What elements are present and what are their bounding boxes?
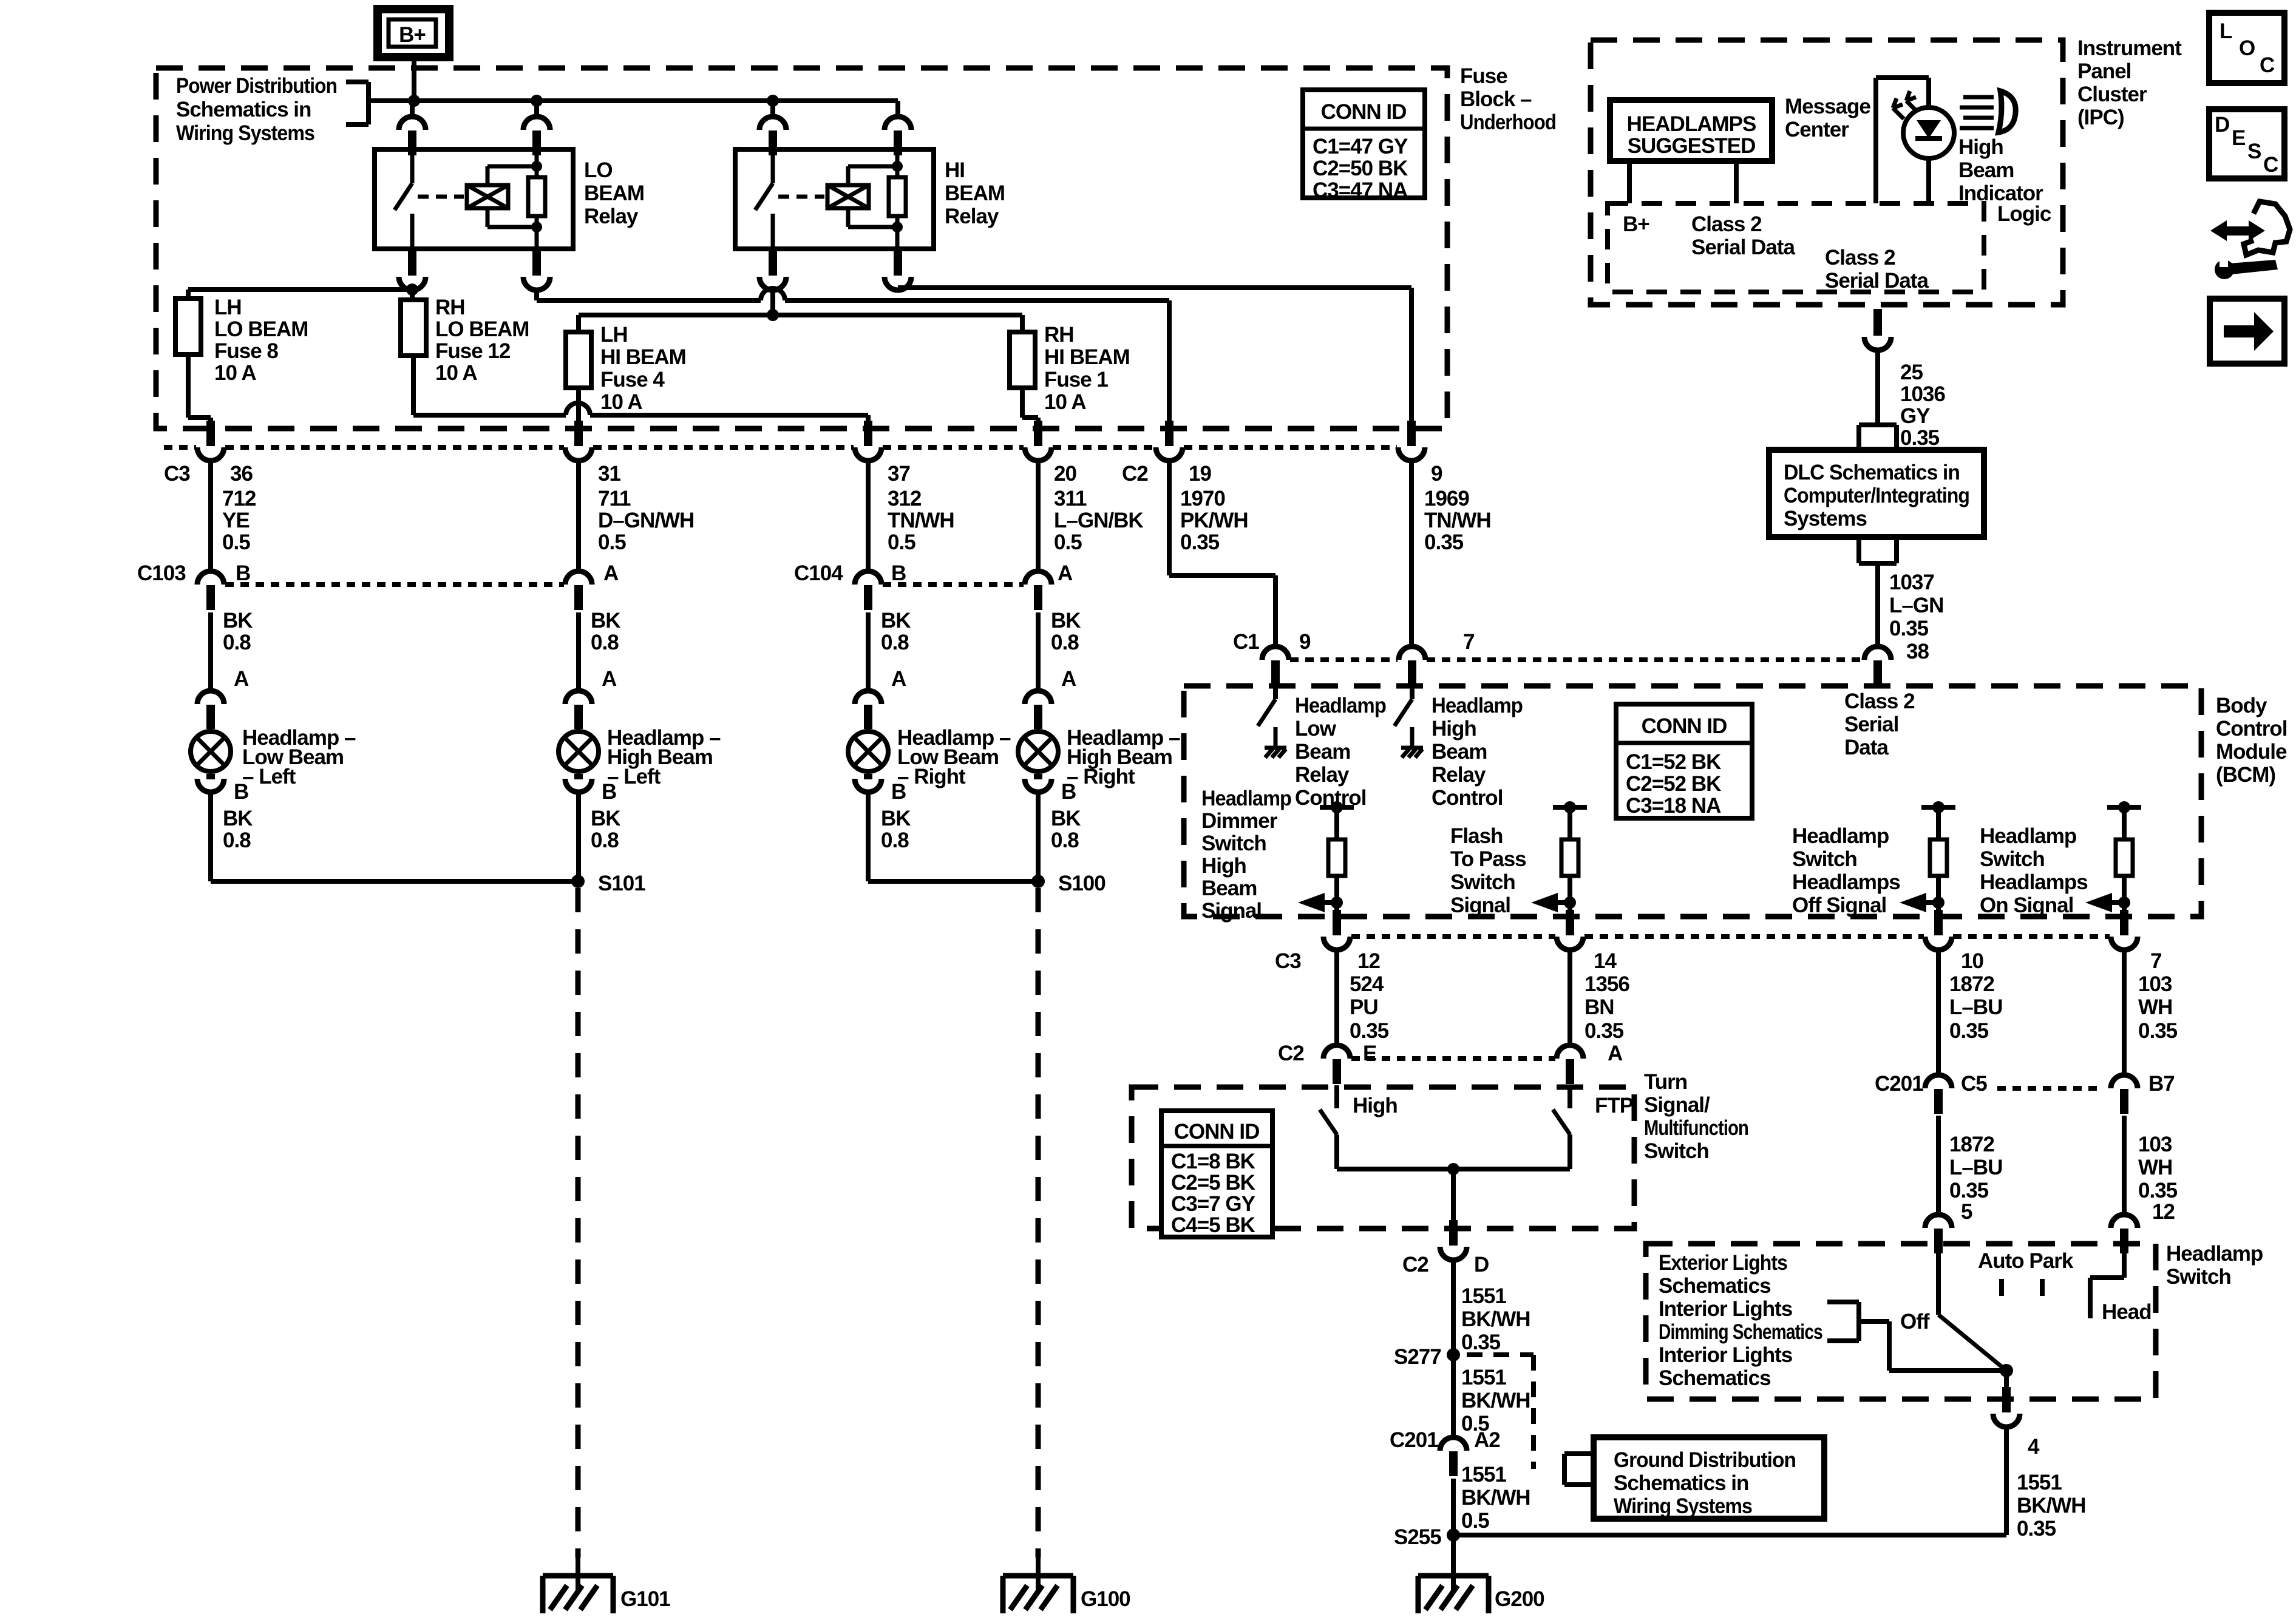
wire LO relay coil out to pin 19 bbox=[537, 288, 1169, 427]
svg-text:CONN ID: CONN ID bbox=[1321, 100, 1407, 124]
connector pin 4 bbox=[1993, 1387, 2020, 1427]
box HEADLAMPS SUGGESTED bbox=[1610, 100, 1772, 161]
pin letter B row bbox=[234, 780, 1076, 804]
wire fuse4 out bbox=[576, 388, 581, 427]
svg-text:C3=47 NA: C3=47 NA bbox=[1313, 178, 1408, 202]
svg-text:CONN ID: CONN ID bbox=[1642, 714, 1727, 738]
svg-text:Headlamps: Headlamps bbox=[1980, 870, 2088, 894]
wire label 524 PU bbox=[1350, 972, 1389, 1043]
svg-text:D–GN/WH: D–GN/WH bbox=[598, 509, 694, 532]
svg-text:Auto Park: Auto Park bbox=[1978, 1249, 2074, 1273]
bracket interior lights dimming bbox=[1827, 1302, 1859, 1341]
label Class 2 Serial Data BCM bbox=[1844, 690, 1915, 759]
bracket to power distribution bbox=[346, 82, 369, 124]
connector pin C1-9 bbox=[1262, 646, 1289, 685]
wire label 1872 L-BU upper bbox=[1949, 972, 2002, 1043]
svg-text:BK: BK bbox=[881, 807, 911, 830]
svg-text:A: A bbox=[602, 667, 617, 691]
head contact bbox=[2090, 1253, 2124, 1318]
icon arrow wrench bbox=[2210, 202, 2290, 279]
node S277 bbox=[1447, 1348, 1460, 1361]
ground G100 bbox=[1003, 1558, 1130, 1613]
svg-text:BK/WH: BK/WH bbox=[1461, 1307, 1530, 1331]
Power Distribution note bbox=[176, 74, 337, 145]
svg-text:Schematics in: Schematics in bbox=[1614, 1471, 1748, 1495]
svg-text:10 A: 10 A bbox=[214, 361, 256, 385]
svg-text:C2: C2 bbox=[1402, 1253, 1428, 1276]
turn signal multifunction switch dashed box bbox=[1132, 1087, 1634, 1229]
wire label 1551 BK/WH 0.35 b bbox=[2017, 1471, 2086, 1541]
svg-text:Signal: Signal bbox=[1201, 899, 1262, 923]
svg-text:0.35: 0.35 bbox=[1424, 531, 1464, 554]
resistor headlamps off R3 bbox=[1900, 801, 1955, 912]
svg-text:– Right: – Right bbox=[1067, 765, 1135, 788]
connector pins headlamp switch 5 12 bbox=[1925, 1215, 2138, 1253]
wires BCM pins to C2 row bbox=[1337, 950, 1570, 1046]
svg-text:C1=8 BK: C1=8 BK bbox=[1171, 1150, 1255, 1173]
svg-text:TN/WH: TN/WH bbox=[888, 509, 954, 532]
svg-text:E: E bbox=[1363, 1042, 1376, 1065]
svg-text:Fuse 8: Fuse 8 bbox=[214, 339, 278, 363]
label Headlamp Switch bbox=[2166, 1242, 2263, 1289]
wire 1037 L-GN bbox=[1875, 563, 1880, 647]
label Headlamp Switch Headlamps Off Signal bbox=[1792, 824, 1900, 917]
svg-text:Switch: Switch bbox=[1792, 847, 1857, 871]
dashed pointer S277 to ground distribution bbox=[1467, 1355, 1594, 1485]
svg-text:0.8: 0.8 bbox=[881, 829, 909, 852]
label Flash To Pass Switch Signal bbox=[1450, 824, 1526, 917]
svg-text:Headlamp: Headlamp bbox=[1295, 694, 1386, 717]
svg-text:BK/WH: BK/WH bbox=[2017, 1494, 2086, 1517]
svg-text:Wiring Systems: Wiring Systems bbox=[176, 121, 314, 145]
label HI BEAM Relay bbox=[945, 158, 1005, 228]
svg-text:1356: 1356 bbox=[1584, 972, 1629, 996]
svg-text:C3: C3 bbox=[164, 462, 190, 486]
svg-text:A: A bbox=[1061, 667, 1076, 691]
BCM dashed box bbox=[1184, 686, 2201, 917]
svg-text:0.35: 0.35 bbox=[2138, 1179, 2178, 1202]
svg-text:Underhood: Underhood bbox=[1460, 110, 1556, 134]
svg-text:0.5: 0.5 bbox=[222, 531, 250, 554]
svg-text:0.35: 0.35 bbox=[1949, 1179, 1989, 1202]
svg-text:1969: 1969 bbox=[1424, 487, 1469, 510]
svg-text:9: 9 bbox=[1431, 462, 1442, 486]
node headlamp switch common bbox=[2000, 1364, 2013, 1377]
label Body Control Module bbox=[2216, 694, 2287, 787]
svg-text:Systems: Systems bbox=[1784, 507, 1867, 531]
svg-text:Beam: Beam bbox=[1295, 740, 1350, 764]
svg-text:20: 20 bbox=[1054, 462, 1076, 486]
svg-text:Headlamp: Headlamp bbox=[1980, 824, 2076, 848]
connector pins BCM bottom bbox=[1323, 910, 2138, 950]
svg-text:Class 2: Class 2 bbox=[1825, 246, 1895, 269]
svg-text:LH: LH bbox=[214, 296, 242, 319]
wires to headlamp switch bbox=[1938, 1116, 2124, 1216]
svg-text:Data: Data bbox=[1844, 736, 1889, 759]
svg-text:Cluster: Cluster bbox=[2077, 83, 2147, 106]
wire lamp grounds right pair bbox=[868, 792, 1038, 881]
connector pins relay LO bottom bbox=[399, 250, 550, 290]
svg-text:C1=47 GY: C1=47 GY bbox=[1313, 135, 1408, 158]
svg-text:19: 19 bbox=[1189, 462, 1211, 486]
label High Beam Indicator Logic bbox=[1958, 135, 2051, 226]
svg-text:HI BEAM: HI BEAM bbox=[600, 345, 686, 369]
resistor headlamps on R4 bbox=[2085, 801, 2141, 912]
svg-text:E: E bbox=[2232, 126, 2245, 150]
wire label 1356 BN bbox=[1584, 972, 1629, 1043]
svg-text:Headlamp: Headlamp bbox=[1201, 787, 1291, 810]
svg-text:High: High bbox=[1958, 135, 2003, 159]
CONN ID table fuse block bbox=[1303, 90, 1425, 202]
lamp E2 headlamp high beam left bbox=[559, 691, 599, 792]
labels C201 row bbox=[1875, 1072, 2175, 1096]
svg-text:12: 12 bbox=[2152, 1200, 2175, 1224]
svg-text:Beam: Beam bbox=[1201, 876, 1257, 900]
svg-text:1551: 1551 bbox=[2017, 1471, 2062, 1494]
svg-text:To Pass: To Pass bbox=[1450, 847, 1526, 871]
svg-text:0.35: 0.35 bbox=[1180, 531, 1220, 554]
svg-text:524: 524 bbox=[1350, 972, 1384, 996]
wire headlamp columns upper bbox=[211, 461, 1038, 571]
svg-text:Off Signal: Off Signal bbox=[1792, 893, 1886, 917]
svg-text:0.8: 0.8 bbox=[223, 829, 251, 852]
svg-text:LO BEAM: LO BEAM bbox=[435, 317, 529, 341]
svg-text:Exterior Lights: Exterior Lights bbox=[1659, 1251, 1787, 1275]
svg-text:LO BEAM: LO BEAM bbox=[214, 317, 308, 341]
wire fuse8 out bbox=[188, 354, 211, 427]
label Class 2 Serial Data left bbox=[1691, 212, 1795, 259]
label Class 2 Serial Data mid bbox=[1825, 246, 1929, 293]
svg-text:7: 7 bbox=[2150, 949, 2161, 973]
switch low beam relay control bbox=[1258, 685, 1286, 758]
wire fuse1 out bbox=[1022, 388, 1038, 427]
svg-text:103: 103 bbox=[2138, 1133, 2172, 1156]
svg-text:25: 25 bbox=[1900, 361, 1923, 384]
svg-text:0.35: 0.35 bbox=[1900, 426, 1940, 450]
wire common to pin 4 bbox=[2004, 1371, 2009, 1402]
connector pin C1-7 bbox=[1399, 646, 1425, 685]
svg-text:Power Distribution: Power Distribution bbox=[176, 74, 337, 98]
wire label 1551 BK/WH 0.5 b bbox=[1461, 1463, 1530, 1533]
svg-text:10 A: 10 A bbox=[1044, 390, 1086, 414]
svg-text:Relay: Relay bbox=[1432, 763, 1486, 787]
svg-text:C: C bbox=[2260, 53, 2275, 77]
svg-text:G100: G100 bbox=[1081, 1587, 1130, 1611]
lamp E1 headlamp low beam left bbox=[191, 691, 231, 792]
svg-text:S255: S255 bbox=[1394, 1525, 1441, 1549]
svg-text:1872: 1872 bbox=[1949, 972, 1994, 996]
switch high beam relay control bbox=[1394, 685, 1423, 758]
svg-text:4: 4 bbox=[2028, 1435, 2040, 1459]
svg-text:Head: Head bbox=[2102, 1300, 2152, 1324]
wire label 1551 BK/WH 0.35 bbox=[1461, 1284, 1530, 1354]
svg-text:103: 103 bbox=[2138, 972, 2172, 996]
svg-text:0.8: 0.8 bbox=[591, 631, 619, 654]
icon DESC bbox=[2209, 109, 2284, 178]
connector pin BCM class2 bbox=[1864, 646, 1891, 685]
svg-text:BK: BK bbox=[591, 807, 620, 830]
svg-text:(BCM): (BCM) bbox=[2216, 763, 2275, 787]
svg-text:Schematics: Schematics bbox=[1659, 1366, 1771, 1390]
wire stubs to relay pins bbox=[412, 101, 898, 117]
connector pin IPC 25 bbox=[1864, 309, 1891, 350]
ground G200 bbox=[1418, 1535, 1544, 1613]
wires C201 column bbox=[1938, 950, 2124, 1076]
svg-text:1551: 1551 bbox=[1461, 1366, 1506, 1389]
svg-text:Beam: Beam bbox=[1432, 740, 1487, 764]
ground G101 bbox=[543, 1558, 670, 1613]
instrument panel cluster dashed box bbox=[1591, 40, 2063, 305]
CONN ID table multifunction switch bbox=[1161, 1111, 1272, 1237]
svg-text:O: O bbox=[2239, 36, 2255, 60]
svg-text:RH: RH bbox=[435, 296, 465, 319]
IPC inner logic dashed box bbox=[1608, 203, 1984, 292]
switch headlamp blade bbox=[1938, 1253, 2006, 1371]
wire headlamps suggested legs bbox=[1629, 161, 1736, 203]
svg-text:38: 38 bbox=[1906, 640, 1929, 663]
connector pins C201 C5 B7 bbox=[1925, 1075, 2138, 1114]
label Exterior Lights Schematics bbox=[1659, 1251, 1787, 1298]
labels C1 row bbox=[1233, 630, 1474, 654]
svg-text:BK: BK bbox=[881, 609, 911, 632]
svg-text:BK: BK bbox=[223, 609, 253, 632]
wire label BK 0.8 row1 bbox=[223, 609, 1081, 654]
svg-text:C2=5 BK: C2=5 BK bbox=[1171, 1171, 1255, 1195]
svg-text:1551: 1551 bbox=[1461, 1463, 1506, 1486]
svg-text:0.35: 0.35 bbox=[1889, 617, 1929, 640]
connector row C1 dotted line bbox=[1290, 657, 1863, 662]
connector pins C3/C2 row bbox=[197, 421, 1425, 461]
svg-text:C4=5 BK: C4=5 BK bbox=[1171, 1213, 1255, 1237]
svg-text:BK/WH: BK/WH bbox=[1461, 1389, 1530, 1412]
wire label 1551 BK/WH 0.5 bbox=[1461, 1366, 1530, 1436]
svg-text:– Left: – Left bbox=[242, 765, 296, 788]
svg-text:Message: Message bbox=[1785, 95, 1870, 118]
connector row C3/C2 dotted line bbox=[164, 445, 1397, 450]
svg-text:Off: Off bbox=[1900, 1310, 1930, 1334]
LED light rays bbox=[1893, 91, 1917, 119]
labels C103 C104 bbox=[137, 561, 1073, 585]
svg-text:14: 14 bbox=[1594, 949, 1617, 973]
svg-text:Flash: Flash bbox=[1450, 824, 1503, 848]
svg-text:C201: C201 bbox=[1875, 1072, 1923, 1096]
icon arrow box bbox=[2210, 299, 2284, 364]
svg-text:B: B bbox=[602, 780, 616, 804]
svg-text:36: 36 bbox=[230, 462, 253, 486]
svg-text:Logic: Logic bbox=[1997, 202, 2051, 226]
svg-text:PU: PU bbox=[1350, 995, 1378, 1019]
node S fuse feed bbox=[406, 283, 418, 296]
fuse block underhood dashed box bbox=[156, 68, 1447, 429]
svg-text:C3=18 NA: C3=18 NA bbox=[1626, 794, 1721, 818]
svg-text:0.8: 0.8 bbox=[1051, 631, 1079, 654]
svg-text:Fuse 12: Fuse 12 bbox=[435, 339, 511, 363]
svg-text:C3: C3 bbox=[1275, 949, 1301, 973]
svg-text:0.5: 0.5 bbox=[598, 531, 626, 554]
svg-text:Signal/: Signal/ bbox=[1644, 1093, 1710, 1117]
svg-text:31: 31 bbox=[598, 462, 620, 486]
svg-text:L–GN: L–GN bbox=[1889, 594, 1943, 617]
connector C104 dotted line bbox=[883, 582, 1024, 587]
switch FTP contact bbox=[1553, 1085, 1570, 1169]
pin letter A row bbox=[234, 667, 1076, 691]
wire common down bbox=[1451, 1169, 1456, 1235]
svg-text:0.35: 0.35 bbox=[1584, 1019, 1624, 1043]
node bus-coil LO bbox=[531, 95, 543, 107]
label Turn Signal Multifunction Switch bbox=[1644, 1070, 1748, 1163]
svg-text:Fuse: Fuse bbox=[1460, 64, 1507, 88]
label Interior Lights Schematics bbox=[1659, 1343, 1793, 1390]
wire label 1037 L-GN 38 bbox=[1889, 571, 1943, 663]
svg-text:On Signal: On Signal bbox=[1980, 893, 2073, 917]
svg-text:C104: C104 bbox=[794, 561, 843, 585]
svg-text:A2: A2 bbox=[1474, 1428, 1500, 1452]
lamp E4 headlamp high beam right bbox=[1018, 691, 1058, 792]
svg-text:B+: B+ bbox=[1623, 212, 1649, 236]
fuse F12 RH LO BEAM bbox=[401, 300, 426, 356]
wire off contact bbox=[1859, 1321, 2006, 1371]
svg-text:0.35: 0.35 bbox=[1949, 1019, 1989, 1043]
label Headlamp Switch Headlamps On Signal bbox=[1980, 824, 2088, 917]
node S100 bbox=[1031, 875, 1045, 888]
svg-text:0.5: 0.5 bbox=[1461, 1509, 1489, 1533]
connector pins C104 bbox=[855, 571, 1051, 610]
wire label 312 TN/WH bbox=[888, 487, 954, 554]
wire label 25 1036 GY bbox=[1900, 361, 1945, 450]
svg-text:Relay: Relay bbox=[945, 205, 999, 228]
svg-text:B: B bbox=[891, 780, 906, 804]
svg-text:Interior Lights: Interior Lights bbox=[1659, 1297, 1793, 1321]
svg-text:Multifunction: Multifunction bbox=[1644, 1116, 1748, 1140]
fuse F1 RH HI BEAM bbox=[1010, 332, 1035, 388]
node switch common bbox=[1447, 1163, 1459, 1175]
labels pins 5 12 bbox=[1961, 1200, 2175, 1224]
svg-text:BEAM: BEAM bbox=[945, 181, 1005, 205]
svg-text:BK: BK bbox=[223, 807, 253, 830]
wire headlamp columns to lamps bbox=[211, 612, 1038, 692]
svg-text:Body: Body bbox=[2216, 694, 2267, 717]
svg-text:HEADLAMPS: HEADLAMPS bbox=[1627, 112, 1756, 136]
svg-text:10 A: 10 A bbox=[600, 390, 642, 414]
label Fuse Block Underhood bbox=[1460, 64, 1556, 134]
svg-text:Serial Data: Serial Data bbox=[1825, 269, 1929, 293]
svg-text:Ground Distribution: Ground Distribution bbox=[1614, 1448, 1796, 1472]
node HI switch junction bbox=[767, 309, 779, 321]
label Headlamp High Beam Relay Control bbox=[1432, 694, 1523, 810]
connector pins relay LO top bbox=[399, 117, 550, 155]
wire label 103 WH upper bbox=[2138, 972, 2178, 1043]
svg-text:9: 9 bbox=[1299, 630, 1311, 654]
connector pin C2-D bbox=[1440, 1220, 1467, 1260]
svg-text:FTP: FTP bbox=[1595, 1094, 1634, 1117]
svg-text:High: High bbox=[1432, 717, 1476, 741]
wire label 1872 L-BU lower bbox=[1949, 1133, 2002, 1202]
svg-text:1551: 1551 bbox=[1461, 1284, 1506, 1308]
resistor flash to pass R2 bbox=[1531, 801, 1587, 912]
svg-text:711: 711 bbox=[598, 487, 631, 510]
wire dashed drop to G101 bbox=[576, 888, 581, 1558]
svg-text:L–BU: L–BU bbox=[1949, 995, 2002, 1019]
label Headlamp Dimmer Switch High Beam Signal bbox=[1201, 787, 1291, 923]
svg-text:S: S bbox=[2247, 140, 2261, 163]
resistor dimmer signal R1 bbox=[1298, 801, 1354, 912]
svg-text:10: 10 bbox=[1961, 949, 1983, 973]
label Instrument Panel Cluster bbox=[2077, 36, 2182, 129]
svg-text:Fuse 4: Fuse 4 bbox=[600, 368, 665, 392]
wire label 1969 TN/WH bbox=[1424, 487, 1491, 554]
svg-text:G101: G101 bbox=[620, 1587, 670, 1611]
svg-text:Class 2: Class 2 bbox=[1691, 212, 1762, 236]
box DLC Schematics bbox=[1769, 450, 1984, 537]
svg-text:0.8: 0.8 bbox=[1051, 829, 1079, 852]
svg-text:C2=50 BK: C2=50 BK bbox=[1313, 157, 1408, 180]
svg-text:Turn: Turn bbox=[1644, 1070, 1687, 1094]
wire label 712 YE bbox=[222, 487, 256, 554]
svg-text:C1: C1 bbox=[1233, 630, 1259, 654]
svg-text:312: 312 bbox=[888, 487, 922, 510]
svg-text:High: High bbox=[1353, 1094, 1398, 1117]
connector pins C103 bbox=[197, 571, 592, 610]
high beam indicator LED D1 bbox=[1876, 78, 1954, 203]
labels C201 A2 bbox=[1390, 1428, 1500, 1452]
svg-text:WH: WH bbox=[2138, 995, 2172, 1019]
svg-text:0.8: 0.8 bbox=[591, 829, 619, 852]
wire B+ down bbox=[412, 57, 416, 101]
svg-text:L–BU: L–BU bbox=[1949, 1156, 2002, 1179]
labels BCM bottom pins bbox=[1275, 949, 2161, 973]
svg-text:LH: LH bbox=[600, 323, 628, 347]
svg-text:1970: 1970 bbox=[1180, 487, 1225, 510]
wire LO relay switch out to fuses bbox=[188, 290, 412, 300]
connector pins relay HI top bbox=[759, 117, 911, 155]
wire HI relay coil out to pin 9 bbox=[898, 288, 1411, 427]
connector row C201 dotted line bbox=[1997, 1086, 2102, 1091]
svg-text:Wiring Systems: Wiring Systems bbox=[1614, 1494, 1752, 1518]
svg-text:Switch: Switch bbox=[1980, 847, 2045, 871]
svg-text:D: D bbox=[2215, 113, 2229, 137]
svg-text:YE: YE bbox=[222, 509, 250, 532]
svg-text:Headlamps: Headlamps bbox=[1792, 870, 1900, 894]
headlamp switch dashed box bbox=[1646, 1244, 2156, 1399]
wire HI relay switch out to fuses bbox=[579, 290, 1022, 332]
svg-text:(IPC): (IPC) bbox=[2077, 106, 2124, 129]
svg-text:A: A bbox=[1608, 1042, 1623, 1065]
wire label 103 WH lower bbox=[2138, 1133, 2178, 1202]
svg-text:Dimming Schematics: Dimming Schematics bbox=[1659, 1320, 1822, 1344]
label Headlamp Low Beam Relay Control bbox=[1295, 694, 1386, 810]
CONN ID table BCM bbox=[1616, 704, 1752, 818]
svg-text:BK: BK bbox=[1051, 807, 1081, 830]
svg-text:HI BEAM: HI BEAM bbox=[1044, 345, 1130, 369]
svg-text:712: 712 bbox=[222, 487, 256, 510]
svg-text:0.35: 0.35 bbox=[2017, 1517, 2056, 1541]
svg-text:Switch: Switch bbox=[1644, 1139, 1709, 1163]
connector row C3 BCM bottom dotted line bbox=[1351, 934, 2110, 939]
svg-text:Panel: Panel bbox=[2077, 59, 2131, 83]
wire 1036 GY bbox=[1875, 350, 1880, 425]
svg-text:311: 311 bbox=[1054, 487, 1087, 510]
fuse F4 LH HI BEAM bbox=[566, 332, 591, 388]
wire B+ bus bbox=[369, 98, 898, 103]
connector pin C201-A2 bbox=[1440, 1437, 1467, 1476]
svg-text:BK: BK bbox=[1051, 609, 1081, 632]
svg-text:Beam: Beam bbox=[1958, 158, 2014, 182]
svg-text:C2: C2 bbox=[1278, 1042, 1304, 1065]
svg-text:1037: 1037 bbox=[1889, 571, 1934, 594]
labels C2 row bbox=[1278, 1042, 1623, 1065]
svg-text:RH: RH bbox=[1044, 323, 1074, 347]
node B+ junction bbox=[408, 95, 420, 107]
